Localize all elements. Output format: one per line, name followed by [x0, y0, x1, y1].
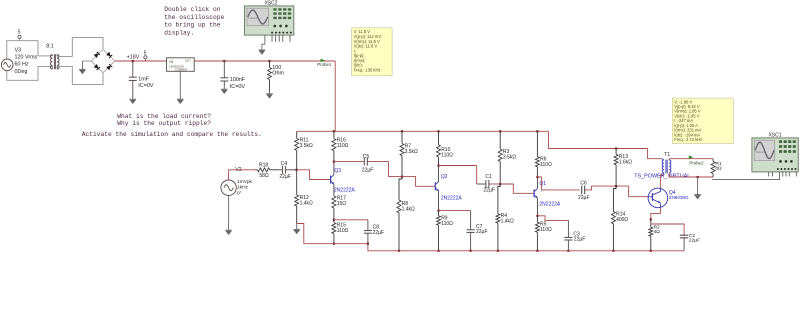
svg-text:Double click on: Double click on: [164, 6, 221, 13]
svg-text:V(dc): 11.8 V: V(dc): 11.8 V: [354, 44, 378, 49]
transistor Q4 2N6038G: [648, 188, 689, 208]
wire transformer secondary to bridge: [57, 38, 103, 85]
capacitor C 100nF: [220, 60, 245, 90]
svg-text:C4: C4: [281, 161, 288, 167]
resistor R12 1.4k: [295, 170, 313, 224]
svg-text:110Ω: 110Ω: [540, 162, 552, 168]
svg-text:110Ω: 110Ω: [441, 152, 453, 158]
ground (1mF cap): [130, 97, 137, 104]
svg-text:Probe2: Probe2: [689, 160, 704, 165]
svg-text:1kHz: 1kHz: [237, 184, 249, 190]
svg-text:display.: display.: [164, 29, 194, 36]
wire C4 to Q3 base: [296, 169, 331, 180]
resistor R13 1.6k: [614, 147, 632, 186]
transistor Q3 2N2222A: [331, 162, 356, 196]
svg-text:0Deg: 0Deg: [15, 69, 28, 75]
capacitor C7 22uF: [467, 211, 488, 252]
svg-text:Q2: Q2: [441, 174, 448, 180]
resistor R7 3.5k: [400, 130, 418, 176]
ground (R12): [293, 224, 300, 235]
resistor R5 110: [535, 215, 552, 252]
svg-text:COMMON: COMMON: [175, 67, 188, 71]
svg-text:1.4kΩ: 1.4kΩ: [501, 218, 514, 224]
resistor R2 4 Ohm: [649, 219, 660, 252]
wire Q3 collector junction: [333, 161, 364, 163]
svg-text:22µF: 22µF: [483, 187, 495, 193]
wire +18V rail: [115, 61, 335, 131]
transformer T1 TS_POWER_VIRTUAL: [634, 152, 690, 179]
svg-text:IC=0V: IC=0V: [138, 83, 154, 89]
capacitor C8 22uF: [364, 220, 384, 244]
svg-text:22µF: 22µF: [279, 174, 291, 180]
svg-text:3.5kΩ: 3.5kΩ: [503, 155, 516, 161]
svg-text:15Ω: 15Ω: [337, 201, 347, 207]
svg-text:2N2222A: 2N2222A: [441, 195, 463, 201]
capacitor C3 22uF: [564, 220, 585, 252]
oscilloscope XSC2: [245, 1, 294, 42]
svg-text:1.4kΩ: 1.4kΩ: [300, 201, 313, 207]
svg-text:2N6038G: 2N6038G: [669, 195, 689, 200]
svg-text:60 Hz: 60 Hz: [15, 62, 29, 68]
wire to Q2 base: [402, 177, 435, 187]
svg-text:Tektronix: Tektronix: [756, 150, 767, 154]
wire bus to output stage: [549, 131, 662, 158]
svg-text:C5: C5: [363, 154, 370, 160]
svg-text:3.5kΩ: 3.5kΩ: [300, 143, 313, 149]
svg-text:Ohm: Ohm: [272, 71, 284, 77]
svg-text:58Ω: 58Ω: [259, 173, 269, 179]
resistor R9 110: [437, 210, 454, 252]
svg-text:TS_POWER_VIRTUAL: TS_POWER_VIRTUAL: [634, 173, 690, 179]
wire Q4 emitter to node: [650, 208, 661, 221]
wire T1 primary bottom to Q4 collector: [660, 175, 663, 189]
svg-text:C6: C6: [580, 181, 587, 187]
wire C5 to stage2: [369, 162, 403, 177]
svg-text:8Ω: 8Ω: [715, 166, 722, 172]
wire bottom common bus: [304, 243, 684, 251]
svg-text:3.5kΩ: 3.5kΩ: [405, 149, 418, 155]
resistor R14 400: [611, 186, 628, 252]
wire to Q1 base: [500, 184, 534, 193]
wire Q1 collector to C6: [536, 176, 579, 190]
svg-text:T1: T1: [664, 152, 670, 158]
svg-text:1.4kΩ: 1.4kΩ: [402, 206, 415, 212]
svg-text:4Ω: 4Ω: [654, 229, 661, 235]
wire R12 to bottom bus: [297, 224, 304, 244]
svg-text:Freq.: 136 kHz: Freq.: 136 kHz: [354, 67, 381, 72]
svg-text:IC=0V: IC=0V: [230, 84, 246, 90]
svg-text:22µF: 22µF: [689, 238, 700, 244]
comment text: questions: [82, 113, 262, 138]
capacitor C5 22uF: [362, 154, 374, 173]
label +18V: [127, 55, 140, 61]
svg-text:Activate the simulation and co: Activate the simulation and compare the …: [82, 131, 262, 138]
svg-text:Why is the output ripple?: Why is the output ripple?: [117, 120, 211, 127]
svg-text:1.6kΩ: 1.6kΩ: [619, 159, 632, 165]
diode bridge: [91, 49, 115, 73]
resistor R10 110: [437, 130, 454, 165]
node 5 (rail): [144, 50, 147, 61]
svg-text:2N2222A: 2N2222A: [334, 187, 356, 193]
wire emitter to C3: [537, 216, 568, 221]
wire Q2 collector junction: [437, 164, 476, 184]
svg-text:C1: C1: [485, 174, 492, 180]
ground (V2): [225, 195, 232, 235]
svg-text:22µF: 22µF: [362, 168, 374, 174]
capacitor C2 22uF: [680, 233, 700, 251]
wire XSC1 to load: [712, 177, 780, 180]
comment text: double click: [164, 6, 224, 36]
capacitor C6 22uF: [578, 181, 590, 201]
probe readout box 2: [672, 98, 733, 143]
svg-text:400Ω: 400Ω: [616, 217, 628, 223]
ground (T1 secondary): [694, 177, 701, 199]
svg-text:Freq.: 2.72 kHz: Freq.: 2.72 kHz: [674, 137, 702, 142]
svg-text:120 Vrms: 120 Vrms: [15, 55, 38, 61]
svg-text:110Ω: 110Ω: [441, 221, 453, 227]
svg-text:R18: R18: [259, 162, 268, 168]
svg-text:22µF: 22µF: [373, 230, 385, 236]
wire T1 secondary bottom: [669, 173, 713, 178]
AC source V2 (1mVpk 1kHz): [221, 167, 253, 196]
svg-text:Q1: Q1: [539, 181, 546, 187]
ground (100nF cap): [221, 88, 228, 94]
voltage regulator LM7815: [167, 58, 195, 97]
resistor R6 110: [535, 130, 552, 177]
svg-text:1mVpk: 1mVpk: [237, 179, 253, 185]
capacitor C4 22uF: [278, 161, 296, 180]
resistor R18 58 Ohm: [255, 162, 278, 179]
svg-text:22µF: 22µF: [574, 237, 586, 243]
svg-text:100nF: 100nF: [230, 77, 246, 83]
ground (100 Ohm): [266, 91, 273, 99]
AC source V3 (120 Vrms 60 Hz): [1, 48, 37, 75]
transistor Q2 2N2222A: [435, 166, 462, 211]
capacitor C 1mF: [129, 60, 154, 97]
wire C1 to stage3: [490, 183, 500, 185]
resistor 100 Ohm: [268, 60, 285, 91]
svg-text:2N2222A: 2N2222A: [539, 201, 561, 207]
ground (bridge): [79, 61, 91, 74]
resistor R15 110: [332, 219, 349, 245]
resistor R11 3.5k: [295, 131, 313, 170]
resistor R1 8 Ohm: [711, 159, 722, 177]
wire V2 to R18: [229, 170, 255, 180]
svg-text:110Ω: 110Ω: [540, 227, 552, 233]
svg-text:Tektronix: Tektronix: [248, 16, 259, 20]
resistor R17 15: [332, 195, 346, 220]
resistor R8 1.4k: [397, 176, 415, 252]
wire XSC2 ground lead: [262, 42, 265, 49]
svg-text:0°: 0°: [237, 190, 242, 196]
resistor R3 3.5k: [498, 130, 516, 184]
capacitor C1 22uF: [477, 174, 495, 193]
wire emitter to C7: [439, 210, 471, 212]
resistor R4 1.4k: [496, 183, 514, 252]
svg-text:110Ω: 110Ω: [337, 143, 349, 149]
wire V3 loop: [7, 41, 38, 81]
svg-text:110Ω: 110Ω: [337, 228, 349, 234]
svg-text:5: 5: [18, 30, 21, 36]
svg-text:+18V: +18V: [127, 55, 140, 61]
resistor R16 110: [332, 130, 349, 161]
node 5 (source top): [18, 30, 22, 41]
svg-text:to bring up the: to bring up the: [164, 22, 221, 29]
svg-text:OUT: OUT: [185, 58, 191, 62]
probe Probe1: [317, 59, 332, 68]
svg-text:V3: V3: [15, 48, 22, 54]
svg-text:8:1: 8:1: [46, 44, 54, 50]
wire top supply bus: [297, 130, 549, 132]
ground (XSC2): [259, 49, 266, 55]
svg-text:1mF: 1mF: [138, 77, 149, 83]
wire emitter node to C2: [651, 224, 684, 235]
transistor Q1 2N2222A: [534, 177, 561, 216]
svg-text:22µF: 22µF: [476, 229, 488, 235]
probe Probe2: [689, 155, 704, 165]
wire T1 secondary top to R1: [669, 159, 713, 160]
ground (regulator): [177, 97, 184, 104]
svg-text:the oscilloscope: the oscilloscope: [164, 14, 224, 21]
transformer 8:1: [38, 44, 59, 70]
svg-text:Probe1: Probe1: [317, 62, 332, 67]
wire emitter to C8: [334, 219, 368, 221]
oscilloscope XSC1: [752, 133, 798, 177]
wire C6 to output stage: [586, 185, 649, 197]
svg-text:22µF: 22µF: [578, 195, 590, 201]
svg-text:Q3: Q3: [334, 168, 341, 174]
probe readout box 1: [352, 28, 392, 76]
